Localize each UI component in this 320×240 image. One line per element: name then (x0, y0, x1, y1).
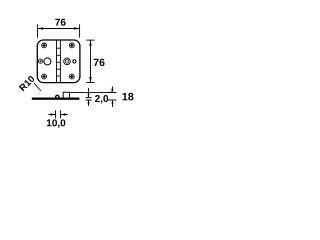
R10 label (rotated) (19, 76, 34, 91)
side view: knuckle (63, 92, 69, 97)
filled screw mid-right (72, 59, 76, 63)
dimension 10,0: ticks and arrows (48, 110, 68, 118)
side view: pin end circle (56, 95, 59, 98)
large hole mid-left (44, 58, 51, 65)
bearing hole mid-right (double ring) (64, 58, 71, 65)
R10 leader line (34, 83, 41, 91)
dimension 2,0: lines and ticks (86, 88, 92, 106)
dimension label 2,0 (95, 95, 108, 104)
side view: leaf plate (32, 98, 80, 100)
dimension label 18 (122, 93, 133, 101)
top dimension 76: extension lines (38, 24, 80, 37)
dimension label 10,0 (47, 119, 65, 128)
right dimension 76: arrowheads (89, 40, 92, 45)
hinge barrel (knuckle column) (57, 40, 61, 83)
right dimension 76: extension + dim lines (86, 40, 94, 82)
screw hole bottom-right (69, 74, 74, 79)
right dimension label 76 (94, 59, 105, 66)
extension line from knuckle top (70, 91, 117, 93)
screw hole top-left (42, 43, 47, 48)
screw hole top-right (69, 43, 74, 48)
hinge leaf outline (face view) (37, 40, 80, 83)
small pin hole mid-left (39, 59, 43, 63)
dimension 10,0: arrowheads (51, 113, 56, 115)
screw hole bottom-left (42, 74, 47, 79)
dimension 18: arrowheads (112, 89, 114, 93)
dimension 18: lines and ticks (108, 86, 116, 107)
dimension 2,0: arrowheads (88, 94, 90, 98)
top dimension 76: arrowheads (38, 27, 43, 30)
top dimension label 76 (55, 19, 65, 26)
